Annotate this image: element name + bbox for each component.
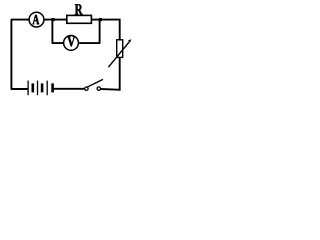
voltmeter V [64,36,79,51]
ammeter A [29,12,44,27]
rheostat arrow [108,39,131,67]
battery cell plate short 2 [41,83,44,92]
wire: left vertical [10,20,12,89]
switch lever [87,79,103,87]
wire: bottom left (corner to battery) [11,88,28,90]
battery cell plate short 1 [31,83,34,92]
wire: voltmeter branch right vertical [99,20,101,43]
switch contact circle left [85,87,88,90]
junction node 1 [51,18,54,21]
wire: right vertical [119,19,121,90]
battery cell plate long 3 [46,81,48,96]
wire: switch to bottom-right corner [100,88,120,91]
battery cell plate long 1 [27,81,29,96]
junction node 2 [99,18,102,21]
battery cell plate long 2 [37,81,39,96]
resistor R box [67,15,92,23]
wire: voltmeter branch left vertical [51,20,53,43]
wire: battery to switch [53,88,85,90]
label R [75,4,83,14]
rheostat box [117,40,123,58]
battery cell plate short 3 [51,83,54,92]
wire: voltmeter branch horizontal [52,42,101,44]
switch contact circle right [97,87,100,90]
wire: top horizontal [11,19,121,21]
